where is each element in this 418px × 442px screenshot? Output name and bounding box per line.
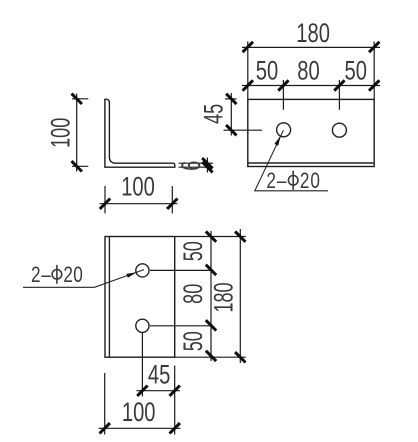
svg-text:45: 45 (148, 360, 170, 389)
svg-text:50: 50 (256, 56, 278, 85)
svg-text:180: 180 (208, 282, 238, 312)
svg-text:100: 100 (45, 118, 75, 148)
svg-text:2: 2 (266, 169, 276, 194)
svg-text:2: 2 (31, 263, 41, 288)
svg-text:50: 50 (178, 331, 208, 351)
svg-text:2: 2 (300, 169, 310, 194)
svg-text:100: 100 (121, 172, 155, 201)
svg-text:80: 80 (297, 56, 319, 85)
svg-text:0: 0 (73, 263, 83, 288)
svg-text:2: 2 (63, 263, 73, 288)
svg-text:50: 50 (345, 56, 367, 85)
svg-text:80: 80 (178, 284, 208, 304)
svg-text:–: – (41, 263, 51, 288)
svg-text:6: 6 (175, 161, 205, 171)
svg-text:100: 100 (122, 397, 156, 426)
svg-text:180: 180 (296, 18, 330, 47)
svg-text:45: 45 (198, 104, 228, 124)
svg-text:0: 0 (310, 169, 320, 194)
svg-text:–: – (277, 169, 287, 194)
svg-text:50: 50 (178, 241, 208, 261)
